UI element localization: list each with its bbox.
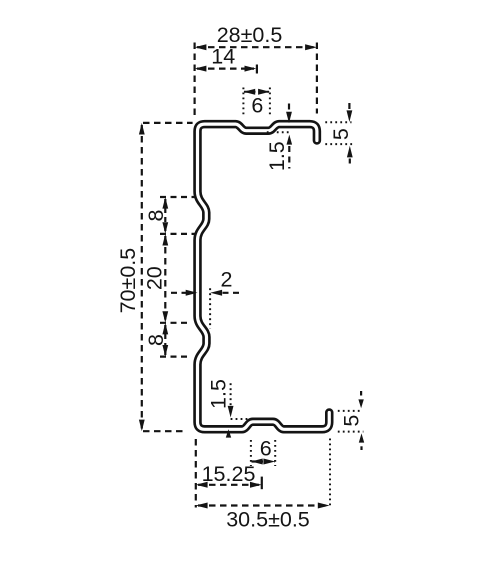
dimension 8 (upper web groove) xyxy=(160,197,196,234)
dimension 5 (bottom lip) xyxy=(338,391,364,450)
dimension 14 xyxy=(197,65,257,74)
dimension 1.5 (top groove depth) xyxy=(267,104,291,169)
svg-text:30.5±0.5: 30.5±0.5 xyxy=(226,507,310,531)
svg-text:6: 6 xyxy=(260,437,272,461)
svg-text:5: 5 xyxy=(329,128,353,140)
dimension 30.5±0.5 xyxy=(198,439,330,509)
svg-text:70±0.5: 70±0.5 xyxy=(116,248,140,314)
dimension 8 (lower web groove) xyxy=(160,325,190,357)
dimension 15.25 xyxy=(196,439,262,508)
svg-text:2: 2 xyxy=(221,267,233,291)
svg-text:14: 14 xyxy=(211,45,235,69)
svg-text:1.5: 1.5 xyxy=(206,379,230,409)
svg-text:15.25: 15.25 xyxy=(202,462,256,486)
svg-text:6: 6 xyxy=(251,94,263,118)
dimension 5 (top lip) xyxy=(325,103,352,164)
svg-text:1.5: 1.5 xyxy=(265,141,289,171)
dimension 20 (between web grooves) xyxy=(160,236,190,323)
svg-text:28±0.5: 28±0.5 xyxy=(217,23,283,47)
svg-text:8: 8 xyxy=(144,334,168,346)
svg-text:8: 8 xyxy=(144,209,168,221)
dimension 6 (top groove) xyxy=(243,88,270,117)
svg-text:20: 20 xyxy=(143,266,167,290)
dimension 6 (bottom groove) xyxy=(251,440,275,466)
dimension 70±0.5 xyxy=(142,123,193,431)
dimension 2 (sheet thickness) xyxy=(171,288,241,328)
dimension 28±0.5 xyxy=(195,43,317,117)
svg-text:5: 5 xyxy=(340,415,364,427)
dimension 1.5 (bottom groove depth) xyxy=(231,383,256,419)
